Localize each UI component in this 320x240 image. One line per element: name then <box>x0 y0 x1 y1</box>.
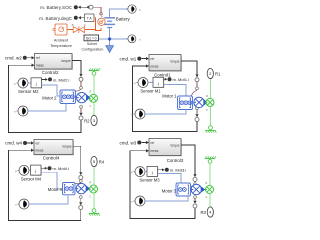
Simulink-PS converter torque <box>195 78 199 82</box>
outport R1 <box>207 68 214 79</box>
wire shaft to ground <box>210 107 212 125</box>
controller block Control2 <box>35 54 73 76</box>
PS-Simulink converter speed <box>79 116 83 120</box>
wire shaft to ground <box>93 193 95 208</box>
svg-text:i: i <box>36 82 37 88</box>
physical signal wire speed sensor <box>80 198 82 202</box>
physical signal wire torque <box>194 182 196 183</box>
motor winding Motor 1 <box>178 96 193 110</box>
connection port n Motor3 <box>133 196 145 206</box>
svg-text:f(x) = 0: f(x) = 0 <box>86 37 97 41</box>
controller block Control4 <box>34 140 74 161</box>
physical signal wire to motor <box>191 90 197 97</box>
svg-text:cmd. w4: cmd. w4 <box>5 141 22 146</box>
wire cmd to ref <box>142 58 147 60</box>
Simulink-PS converter torque <box>79 176 83 180</box>
svg-text:ref: ref <box>151 57 155 61</box>
connection port + battery <box>126 5 136 13</box>
svg-text:torque: torque <box>62 145 71 149</box>
mechanical rotational reference ground <box>89 68 100 75</box>
svg-text:Sensor M3: Sensor M3 <box>139 178 160 183</box>
svg-text:R2: R2 <box>84 118 90 123</box>
rotor Motor 2 <box>77 92 91 102</box>
wire outport to shaft <box>93 167 95 185</box>
temperature sensor <box>98 16 105 26</box>
svg-text:C: C <box>89 195 91 199</box>
junction battery negative <box>108 37 111 40</box>
wire measurement feedback loop <box>133 66 198 132</box>
svg-text:C: C <box>206 108 208 112</box>
svg-text:m. Battery.degC: m. Battery.degC <box>39 16 73 21</box>
wire port to current sensor <box>29 169 30 171</box>
svg-text:R: R <box>89 180 91 184</box>
svg-text:R1: R1 <box>215 72 221 77</box>
physical signal wire speed sensor <box>194 198 196 200</box>
svg-text:Sensor M2: Sensor M2 <box>18 89 39 94</box>
physical signal wire SOC <box>93 7 101 12</box>
wire port to current sensor <box>28 82 31 84</box>
connection port n Motor4 <box>17 199 29 209</box>
connection port p Motor4 <box>17 165 29 175</box>
svg-text:meas: meas <box>36 64 44 68</box>
wire current sensor output <box>164 78 166 80</box>
physical signal wire to motor <box>74 89 81 92</box>
svg-text:Control2: Control2 <box>42 70 59 75</box>
svg-text:torque: torque <box>61 59 70 63</box>
svg-text:R: R <box>206 94 208 98</box>
wire torque command <box>73 146 81 172</box>
controller block Control3 <box>149 139 184 164</box>
connection port n battery <box>126 35 136 43</box>
block conductive heat transfer <box>73 26 84 33</box>
svg-text:ref: ref <box>36 141 40 145</box>
wire solver to rail <box>99 38 128 40</box>
outport R4 <box>91 156 98 167</box>
svg-text:Control4: Control4 <box>43 156 60 161</box>
wire current sensor output <box>158 169 163 171</box>
svg-text:m. Mot1.i: m. Mot1.i <box>173 77 190 82</box>
svg-text:Ambient: Ambient <box>54 37 69 42</box>
shaft inertia <box>205 98 214 106</box>
svg-text:Control3: Control3 <box>167 158 184 163</box>
svg-text:B: B <box>72 23 74 27</box>
physical signal wire speed sensor <box>80 108 82 112</box>
svg-text:C: C <box>205 195 207 199</box>
wire degC signal <box>81 17 84 19</box>
svg-text:i: i <box>158 81 159 87</box>
svg-text:Configuration: Configuration <box>81 47 103 51</box>
wire shaft lower <box>209 194 211 207</box>
wire cmd to ref <box>142 142 147 144</box>
motor winding Motor 4 <box>63 183 76 195</box>
outport R3 <box>207 207 214 218</box>
PS-Simulink converter speed <box>195 118 199 122</box>
shaft inertia <box>89 185 98 193</box>
svg-text:meas: meas <box>36 149 44 153</box>
wire port to current sensor <box>145 171 147 173</box>
wire battery positive rail <box>110 9 128 17</box>
mechanical rotational reference ground <box>89 209 100 216</box>
wire shaft to ground <box>93 76 95 94</box>
wire n port to motor return <box>145 196 188 201</box>
svg-text:R: R <box>89 90 91 94</box>
svg-text:Battery: Battery <box>116 17 131 22</box>
wire cmd to ref <box>27 142 31 144</box>
svg-text:m. Mot2.i: m. Mot2.i <box>53 77 70 82</box>
svg-text:torque: torque <box>170 143 179 147</box>
current sensor Sensor M1 <box>153 77 164 88</box>
shaft inertia <box>89 94 98 102</box>
svg-text:C: C <box>89 104 91 108</box>
svg-text:A: A <box>84 23 86 27</box>
PS-Simulink converter block TA <box>85 14 95 22</box>
wire sensor to motor supply <box>41 172 63 189</box>
svg-text:torque: torque <box>170 59 179 63</box>
physical signal wire to motor <box>189 184 195 187</box>
connection port p Motor2 <box>16 78 28 88</box>
PS-Simulink converter SOC <box>89 5 93 9</box>
svg-text:R4: R4 <box>99 160 105 165</box>
svg-text:Control1: Control1 <box>154 72 171 77</box>
svg-text:cmd. w3: cmd. w3 <box>120 140 137 145</box>
rotor Motor 3 <box>191 184 205 194</box>
physical signal wire speed sensor <box>196 110 198 114</box>
svg-text:ref: ref <box>36 56 40 60</box>
wire sensor to motor supply <box>158 173 182 183</box>
svg-text:R: R <box>205 181 207 185</box>
wire torque command <box>181 145 195 175</box>
physical signal wire to motor <box>74 182 81 183</box>
motor winding Motor 3 <box>176 183 191 196</box>
wire shaft lower <box>93 103 95 115</box>
svg-text:Sensor M1: Sensor M1 <box>140 89 161 94</box>
rotor Motor 1 <box>194 97 208 107</box>
svg-text:m. Battery.SOC: m. Battery.SOC <box>40 5 73 10</box>
svg-text:i: i <box>35 169 36 175</box>
wire battery negative rail <box>109 28 111 45</box>
wire thermal TA loop <box>94 18 101 31</box>
wire sensor to motor supply <box>164 84 187 96</box>
wire current sensor output <box>42 78 47 80</box>
wire n port to motor return <box>28 104 66 112</box>
physical signal wire torque <box>196 82 198 87</box>
electrical reference arrow <box>106 46 114 53</box>
controller block Control1 <box>149 55 182 78</box>
wire n port to motor return <box>145 110 186 115</box>
block Solver Configuration <box>84 35 99 41</box>
current sensor Sensor M3 <box>147 166 158 177</box>
svg-text:Temperature: Temperature <box>50 43 72 48</box>
connection port p Motor3 <box>133 167 145 177</box>
current sensor Sensor M4 <box>31 165 42 176</box>
wire n port to motor return <box>29 195 68 204</box>
svg-text:Motor 2: Motor 2 <box>42 95 57 100</box>
wire torque command <box>181 61 197 75</box>
mechanical rotational reference ground <box>205 126 216 133</box>
svg-text:m. Mot3.i: m. Mot3.i <box>170 168 187 173</box>
Simulink-PS converter torque <box>79 77 83 81</box>
battery B1 <box>104 18 115 28</box>
rotor Motor 4 <box>76 183 90 193</box>
svg-text:Motor 1: Motor 1 <box>162 94 177 99</box>
PS-Simulink converter speed <box>79 206 83 210</box>
wire measurement feedback loop <box>9 150 81 220</box>
wire measurement feedback loop <box>130 151 195 219</box>
physical signal wire torque <box>80 81 82 86</box>
svg-text:Sensor M4: Sensor M4 <box>21 176 42 181</box>
svg-text:ref: ref <box>151 141 155 145</box>
svg-text:meas: meas <box>151 64 159 68</box>
wire port to current sensor <box>148 82 153 84</box>
Simulink-PS converter torque <box>193 178 197 182</box>
block Ambient Temperature source <box>53 24 67 35</box>
shaft inertia <box>205 186 214 194</box>
wire shaft to ground <box>209 164 211 185</box>
svg-text:R3: R3 <box>200 210 206 215</box>
svg-text:Solver: Solver <box>87 42 98 46</box>
connection port p Motor1 <box>136 78 148 88</box>
PS-Simulink converter speed <box>193 204 197 208</box>
wire thermal conduction to battery node <box>85 29 96 31</box>
wire thermal ambient to conduction <box>67 29 73 31</box>
wire torque command <box>72 60 81 74</box>
svg-text:m. Mot4.i: m. Mot4.i <box>53 166 70 171</box>
connection port n Motor1 <box>133 109 145 119</box>
physical signal wire torque <box>80 179 82 181</box>
svg-text:cmd. w1: cmd. w1 <box>120 56 137 61</box>
svg-text:meas: meas <box>151 149 159 153</box>
wire sensor to motor supply <box>42 85 61 96</box>
wire current sensor output <box>41 167 46 169</box>
current sensor Sensor M2 <box>31 78 42 89</box>
outport R2 <box>91 115 98 126</box>
svg-text:i: i <box>152 170 153 176</box>
svg-text:Motor 4: Motor 4 <box>48 187 63 192</box>
wire SOC signal with arrowheads <box>81 6 88 8</box>
motor winding Motor 2 <box>60 90 76 104</box>
wire measurement feedback loop <box>9 65 82 132</box>
connection port n Motor2 <box>16 106 28 116</box>
svg-text:Motor 3: Motor 3 <box>162 188 177 193</box>
svg-text:cmd. w2: cmd. w2 <box>5 56 22 61</box>
wire outport to shaft <box>210 79 212 98</box>
wire cmd to ref <box>27 57 32 59</box>
mechanical rotational reference ground <box>205 156 216 163</box>
